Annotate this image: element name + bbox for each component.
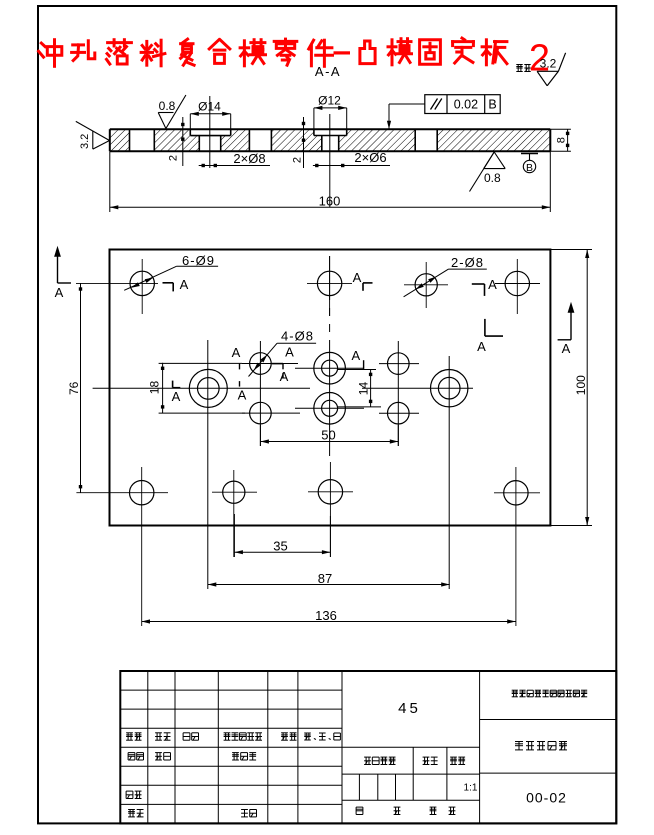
hole Ø8 of 4-Ø8 top-right <box>388 353 410 375</box>
table text 审核 <box>126 790 133 792</box>
plan view plate outline <box>110 250 551 526</box>
svg-text:A: A <box>238 388 247 403</box>
svg-text:18: 18 <box>148 381 162 395</box>
table text 工艺 批准 <box>128 810 256 817</box>
title block left grid <box>120 671 342 823</box>
hole Ø9 bottom-middle <box>318 480 342 504</box>
section mark mid right <box>477 319 503 354</box>
section arrow A (left) <box>54 246 71 300</box>
svg-text:A: A <box>353 270 362 285</box>
svg-text:50: 50 <box>321 428 335 443</box>
dimension 76 <box>67 283 82 492</box>
svg-text:A: A <box>55 285 64 300</box>
counterbore Ø12 with Ø6 through hole (section) <box>314 129 347 151</box>
counterbored hole Ø12/Ø6 upper <box>314 352 346 384</box>
dimension 2×Ø6 <box>313 150 390 167</box>
table text 设计 杨明 标准化 <box>128 753 256 760</box>
dowel hole Ø8 (section) <box>415 129 437 151</box>
svg-text:6-Ø9: 6-Ø9 <box>182 253 215 268</box>
hole Ø8 of 4-Ø8 bottom-left <box>250 402 272 424</box>
school name 河南机电高等专科学校 <box>512 689 518 691</box>
dimension 14 <box>338 370 381 407</box>
roughness symbol 0.8 (bottom face) <box>470 152 506 192</box>
svg-text:8: 8 <box>556 137 568 143</box>
dowel hole Ø8 bottom <box>223 481 245 503</box>
section mark near dowel hole top <box>472 277 497 296</box>
label 6-Ø9 with leader <box>124 253 218 290</box>
label 2-Ø8 with leader <box>404 255 487 297</box>
hole Ø9 top-middle <box>317 271 341 295</box>
svg-text:A: A <box>280 369 289 384</box>
feature control frame // 0.02 B <box>387 95 500 130</box>
table text row 标记 处数 分区 更改文件号 签名 年月日 <box>126 733 340 740</box>
dimension 50 <box>260 425 398 446</box>
svg-text:2×Ø6: 2×Ø6 <box>354 150 386 165</box>
svg-text:35: 35 <box>273 539 287 554</box>
svg-text:2: 2 <box>168 155 180 161</box>
svg-text:Ø12: Ø12 <box>318 94 341 108</box>
svg-text:3.2: 3.2 <box>540 57 557 71</box>
svg-text:B: B <box>488 98 496 112</box>
counterbored hole Ø14/Ø8 right <box>431 370 468 407</box>
svg-text:0.8: 0.8 <box>484 171 501 185</box>
counterbored hole Ø12/Ø6 lower <box>314 393 346 425</box>
dimension Ø14 <box>190 100 230 130</box>
svg-text:A: A <box>351 348 360 363</box>
svg-text:Ø14: Ø14 <box>198 100 221 114</box>
svg-text:45: 45 <box>398 700 421 717</box>
svg-text:A: A <box>172 389 181 404</box>
dimension 18 <box>148 363 246 413</box>
svg-text:2: 2 <box>292 157 304 163</box>
section bar hatched body <box>110 129 551 151</box>
svg-text:87: 87 <box>318 571 332 586</box>
hole Ø9 bottom-right <box>504 481 528 505</box>
svg-text:A: A <box>562 341 571 356</box>
dimension 100 <box>550 250 592 526</box>
dimension 8 (plate thickness) <box>550 129 571 151</box>
svg-text:136: 136 <box>315 608 337 623</box>
header 阶段标记 重量 比例 <box>364 757 465 764</box>
hole Ø9 bottom-left <box>130 481 154 505</box>
title block right section dividers <box>480 719 617 721</box>
svg-text:3.2: 3.2 <box>79 134 91 149</box>
svg-text:00-02: 00-02 <box>526 790 567 806</box>
svg-text:A: A <box>477 339 486 354</box>
counterbored hole Ø14/Ø8 left <box>189 369 227 407</box>
centerline of Ø12/Ø6 hole (section) <box>329 114 331 208</box>
svg-text:100: 100 <box>574 375 588 395</box>
hole Ø9 top-right <box>505 271 529 295</box>
title block outline <box>120 671 616 823</box>
svg-text:2×Ø8: 2×Ø8 <box>233 151 265 166</box>
datum symbol B <box>521 154 538 175</box>
title text (red) 冲孔落料复合模零件-凸模固定板2 <box>39 38 550 80</box>
section bar outline <box>110 128 551 130</box>
title block middle section <box>342 671 480 823</box>
section marks in hole cluster <box>172 345 364 405</box>
part name 凸模固定板 <box>515 741 523 743</box>
svg-text:76: 76 <box>67 381 81 395</box>
svg-text:14: 14 <box>357 382 371 396</box>
section mark near top-middle hole <box>353 270 373 291</box>
svg-text:A: A <box>488 277 497 292</box>
footer 共 张 第 张 <box>356 807 455 814</box>
section arrow A (right) <box>558 302 575 356</box>
roughness symbol 3.2 (left face) <box>76 121 110 149</box>
hole Ø8 of 4-Ø8 top-left <box>250 353 272 375</box>
hole Ø8 of 4-Ø8 (section) <box>249 129 271 151</box>
label 4-Ø8 with leader <box>249 329 317 377</box>
svg-text:2-Ø8: 2-Ø8 <box>451 255 484 270</box>
svg-text:B: B <box>526 162 533 174</box>
dimension 2 (depth of Ø12 counterbore) <box>292 117 306 168</box>
dimension Ø12 <box>314 94 347 130</box>
section mark near top-left hole <box>163 277 189 292</box>
general roughness symbol 其余 3.2 <box>516 53 565 86</box>
centerline vertical big hole right <box>448 356 450 589</box>
counterbore Ø14 with Ø8 through hole (section) <box>190 129 230 151</box>
svg-text:0.02: 0.02 <box>454 98 478 112</box>
svg-text:A-A: A-A <box>315 64 341 79</box>
centerline of Ø14/Ø8 hole (section) <box>209 96 211 168</box>
dimension 2 (depth of Ø14 counterbore) <box>168 117 185 166</box>
hole Ø8 of 4-Ø8 bottom-right <box>388 402 410 424</box>
svg-text:4-Ø8: 4-Ø8 <box>281 329 314 344</box>
dimension 160 <box>110 151 551 212</box>
svg-text:A: A <box>232 345 241 360</box>
hole Ø9 (section) <box>130 129 155 151</box>
svg-text:A: A <box>285 345 294 360</box>
dimension 35 <box>234 514 330 557</box>
centerline vertical (middle column) <box>329 256 331 300</box>
dimension 87 <box>208 571 450 587</box>
centerline vertical big hole left <box>207 340 209 589</box>
roughness symbol 0.8 (top face) <box>158 95 186 129</box>
svg-text:0.8: 0.8 <box>159 99 176 113</box>
centerline horizontal (through big holes) <box>93 387 310 389</box>
dimension 2×Ø8 <box>199 151 270 167</box>
dowel hole Ø8 top <box>415 274 437 296</box>
svg-text:160: 160 <box>319 194 341 209</box>
svg-text:1:1: 1:1 <box>464 783 478 794</box>
hole Ø9 top-left <box>130 271 154 295</box>
dimension 136 <box>142 608 516 624</box>
svg-text:A: A <box>180 277 189 292</box>
